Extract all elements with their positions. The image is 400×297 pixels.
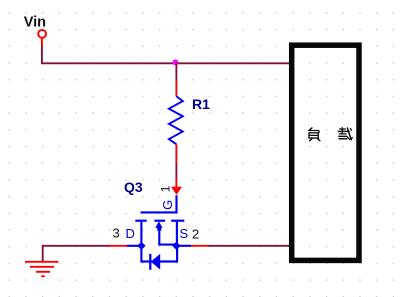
transistor Q3 body diode cathode bar: [149, 254, 151, 270]
svg-text:1: 1: [159, 185, 173, 192]
resistor R1 pin 1: [175, 80, 177, 96]
label load character fu: [309, 128, 320, 141]
svg-text:D: D: [126, 226, 135, 241]
svg-text:G: G: [160, 200, 175, 210]
label load character zai: [338, 128, 352, 140]
ground symbol: [25, 262, 58, 277]
wire R1 to Q3 gate: [175, 163, 177, 178]
wire junction to R1: [175, 63, 177, 81]
junction source diamond: [172, 242, 180, 250]
transistor Q3 gate pin shaft: [175, 178, 177, 189]
wire ground to drain: [43, 245, 109, 247]
junction drain diamond: [137, 242, 145, 250]
svg-text:3: 3: [113, 226, 120, 241]
transistor Q3 body lead: [159, 228, 176, 245]
transistor Q3 gate lead: [141, 195, 177, 212]
svg-text:S: S: [180, 226, 189, 241]
transistor Q3 source lead: [176, 221, 178, 246]
transistor Q3 channel segment middle: [154, 220, 165, 222]
wire source to load: [208, 245, 290, 247]
resistor R1 pin 2: [175, 144, 177, 162]
svg-text:Q3: Q3: [124, 179, 143, 195]
svg-text:R1: R1: [192, 96, 210, 112]
svg-text:Vin: Vin: [24, 15, 46, 31]
pin Vin port: [41, 39, 43, 46]
wire Vin vertical: [41, 46, 43, 64]
transistor Q3 body diode triangle: [151, 254, 160, 270]
transistor Q3 channel segment drain: [135, 220, 146, 222]
transistor Q3 source stub: [176, 245, 191, 247]
wire ground stem: [42, 245, 44, 262]
junction node: [173, 59, 179, 65]
transistor Q3 drain pin: [109, 245, 127, 247]
load box: [292, 45, 359, 260]
transistor Q3 gate pin arrowhead: [171, 187, 182, 195]
transistor Q3 drain lead: [140, 221, 142, 246]
transistor Q3 drain stub: [127, 245, 141, 247]
transistor Q3 body diode loop: [141, 246, 177, 262]
transistor Q3 channel segment source: [171, 220, 184, 222]
transistor Q3 body arrow: [155, 221, 162, 228]
svg-text:2: 2: [192, 227, 199, 242]
resistor R1 body: [169, 96, 183, 144]
transistor Q3 source pin: [191, 245, 208, 247]
wire top horizontal: [41, 62, 290, 64]
port Vin terminal: [38, 30, 46, 38]
